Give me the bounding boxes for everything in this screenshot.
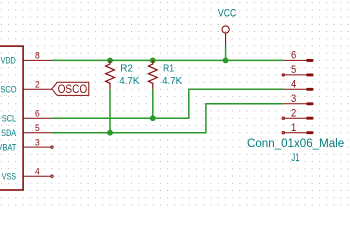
svg-text:4.7K: 4.7K xyxy=(162,76,182,87)
svg-text:4.7K: 4.7K xyxy=(119,76,139,87)
svg-text:3: 3 xyxy=(291,93,297,105)
svg-text:SDA: SDA xyxy=(1,127,16,138)
svg-text:6: 6 xyxy=(35,108,40,119)
svg-text:1: 1 xyxy=(291,122,297,134)
svg-text:4: 4 xyxy=(35,166,40,177)
svg-text:VSS: VSS xyxy=(2,171,17,182)
svg-text:8: 8 xyxy=(35,50,40,61)
svg-text:SCL: SCL xyxy=(2,113,17,124)
svg-text:3: 3 xyxy=(35,137,40,148)
svg-text:R1: R1 xyxy=(163,63,174,75)
svg-text:R2: R2 xyxy=(120,63,133,74)
svg-text:2: 2 xyxy=(291,108,297,120)
svg-text:VBAT: VBAT xyxy=(0,142,17,153)
svg-text:VCC: VCC xyxy=(218,8,236,20)
svg-text:6: 6 xyxy=(291,50,297,62)
svg-text:2: 2 xyxy=(35,79,40,90)
svg-text:OSCO: OSCO xyxy=(0,84,17,95)
svg-text:5: 5 xyxy=(35,123,40,134)
svg-text:VDD: VDD xyxy=(1,55,16,66)
svg-text:4: 4 xyxy=(291,79,297,91)
svg-text:J1: J1 xyxy=(291,152,299,165)
svg-text:OSCO: OSCO xyxy=(58,83,88,96)
svg-text:5: 5 xyxy=(291,65,297,77)
svg-text:Conn_01x06_Male: Conn_01x06_Male xyxy=(247,136,345,150)
